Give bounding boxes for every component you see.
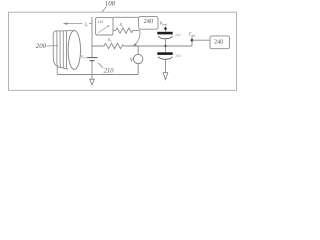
V_batt node: stub + junction dot [165, 27, 167, 32]
wire 241 to 240 [113, 16, 139, 18]
stub circle bottom [137, 64, 139, 75]
svg-text:R2: R2 [107, 37, 113, 43]
svg-text:Tout: Tout [189, 32, 196, 38]
svg-text:242: 242 [175, 33, 181, 37]
source circle V [134, 54, 143, 63]
svg-text:200: 200 [36, 43, 47, 50]
svg-text:R1: R1 [119, 22, 125, 28]
svg-text:240: 240 [144, 18, 154, 25]
junction dot at C1/R2 wire [164, 45, 166, 47]
cell bottom stub wire [56, 67, 58, 75]
terminal arrow (cap string bottom) [163, 73, 168, 80]
current arrow I_b [65, 23, 93, 25]
svg-text:Voc: Voc [81, 54, 87, 60]
svg-text:210: 210 [104, 68, 115, 75]
diagonal arrow inside box 241 [98, 26, 109, 33]
wire C2 down [165, 59, 167, 72]
battery cell 200 (cylinder) [53, 31, 80, 70]
outer enclosure box 108 [9, 12, 237, 90]
capacitor C2 (polarized) [157, 52, 172, 55]
resistor R2 [92, 43, 192, 48]
box 240 (right) [210, 36, 230, 49]
wire C1 to node [165, 39, 167, 53]
output node T_out: stub + dot [191, 37, 193, 46]
stub circle top [137, 46, 139, 54]
leader for 108 [102, 7, 107, 13]
svg-text:243: 243 [175, 54, 181, 58]
svg-text:240: 240 [214, 39, 223, 46]
voltage source V_oc (battery plates) [87, 57, 98, 59]
leader for 210 [98, 63, 103, 68]
wire R1 to node (curved, with arrowhead) [135, 31, 141, 45]
resistor R1 [113, 28, 140, 33]
ground arrow (left terminal) [90, 79, 95, 85]
svg-text:Vbatt: Vbatt [160, 21, 168, 27]
box 240 (top) [139, 17, 158, 30]
bottom wire [57, 74, 138, 76]
wire to box 240 (right) [192, 39, 210, 41]
leader for 200 [47, 45, 59, 47]
capacitor C1 (polarized) [157, 32, 172, 35]
node wire (left vertical branch) [91, 17, 93, 80]
sense box 241 [96, 18, 113, 35]
svg-text:241: 241 [97, 19, 103, 24]
